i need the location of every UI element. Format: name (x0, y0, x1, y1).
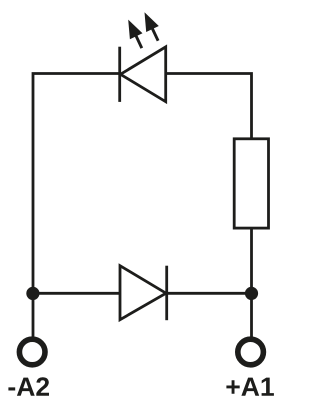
LED arrow 1 (128, 20, 142, 48)
junction node left (26, 287, 39, 300)
LED arrow 2 (145, 12, 159, 41)
resistor R1 (234, 139, 268, 228)
label -A2 (8, 377, 49, 396)
wire top-left from corner to LED cathode (33, 74, 120, 337)
diode D2 triangle (120, 266, 166, 320)
terminal circle -A2 (19, 339, 45, 365)
wire top-right from LED anode to corner and down to resistor (166, 74, 252, 140)
wire resistor bottom to terminal +A1 (250, 228, 253, 337)
wire diode to bottom-right node (167, 292, 252, 295)
terminal circle +A1 (238, 339, 264, 365)
LED D1 cathode bar (118, 47, 121, 102)
junction node right (245, 287, 258, 300)
diode D2 cathode bar (165, 266, 168, 321)
label +A1 (226, 378, 274, 396)
LED D1 triangle (120, 47, 165, 102)
wire bottom-left node to diode (33, 292, 120, 295)
